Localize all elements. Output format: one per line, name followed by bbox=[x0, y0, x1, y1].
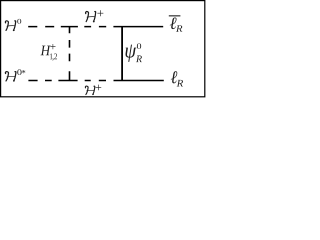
wire: top dashed Higgs line H0 -> vertex (dashes) bbox=[28, 26, 106, 28]
label H+_{1,2}: superscript + bbox=[50, 44, 55, 49]
wire: bottom junction bar at vertex with H+_{1,2} line bbox=[58, 80, 77, 82]
label H+ (bottom-middle): calligraphic H bbox=[85, 86, 94, 95]
label H0 (top-left): calligraphic H bbox=[5, 21, 15, 31]
label H+_{1,2}: subscript comma bbox=[52, 58, 53, 60]
label psi0_R: superscript 0 bbox=[137, 43, 141, 49]
propagator: vertical solid fermion line psi0_R bbox=[121, 27, 123, 81]
label H+_{1,2}: subscript 1 bbox=[50, 53, 52, 59]
label H+ (top-middle): calligraphic H bbox=[86, 11, 96, 21]
label lbar_R (top-right): script ell bbox=[170, 17, 177, 29]
border frame bbox=[1, 1, 205, 97]
label H+ (top-middle): superscript + bbox=[97, 10, 103, 16]
wire: top junction bar at vertex with H+_{1,2} line bbox=[61, 26, 78, 28]
label l_R (bottom-right): subscript R bbox=[177, 80, 183, 87]
label lbar_R (top-right): subscript R bbox=[176, 25, 182, 31]
label H+_{1,2}: subscript 2 bbox=[54, 53, 57, 59]
label H0 (top-left): superscript 0 bbox=[17, 19, 21, 24]
propagator: vertical dashed H+ exchange line bbox=[69, 27, 71, 81]
label H0* (bottom-left): superscript star bbox=[22, 70, 25, 73]
label H+_{1,2} (charged Higgs propagator): italic H bbox=[40, 46, 50, 56]
label H0* (bottom-left): superscript 0 bbox=[17, 69, 21, 75]
wire: bottom dashed Higgs line H0* -> vertex (dashes) bbox=[28, 80, 106, 82]
label H+ (bottom-middle): superscript + bbox=[96, 85, 102, 91]
label psi0_R: subscript R bbox=[136, 56, 142, 63]
wire: top solid lepton line to lbar_R bbox=[113, 26, 163, 28]
wire: bottom solid lepton line to l_R bbox=[114, 80, 164, 82]
label H0* (bottom-left): calligraphic H bbox=[5, 72, 16, 81]
label lbar_R (top-right): overline bbox=[169, 15, 181, 16]
label psi0_R (fermion propagator): psi bbox=[126, 45, 137, 62]
label l_R (bottom-right): script ell bbox=[171, 71, 177, 83]
